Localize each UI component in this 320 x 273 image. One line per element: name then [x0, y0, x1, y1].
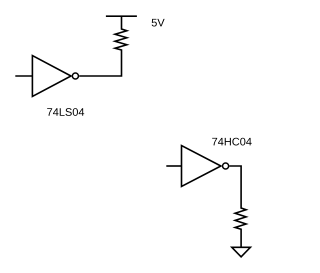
wire U2 input [166, 165, 181, 167]
inverter U1 output bubble [72, 73, 78, 79]
resistor R2 with leads: wire from U2 output through zigzag down to ground [229, 166, 246, 247]
resistor R1 with leads: wire from 5V bar through zigzag down to output node [79, 16, 127, 76]
inverter U1 triangle [32, 56, 71, 97]
label 74HC04 [212, 138, 251, 146]
ground [232, 247, 251, 257]
inverter U2 triangle [182, 146, 221, 187]
power symbol 5V bar [106, 15, 137, 17]
label 5V [152, 19, 165, 27]
label 74LS04 [47, 108, 84, 116]
wire U1 input [15, 75, 32, 77]
inverter U2 output bubble [223, 163, 229, 169]
